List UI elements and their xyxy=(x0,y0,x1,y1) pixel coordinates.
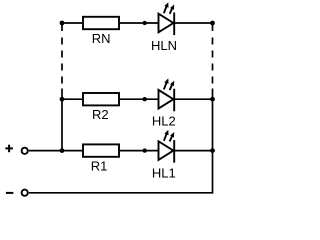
node left bus R1 / plus xyxy=(60,148,65,153)
wire branch 1 right xyxy=(174,150,213,152)
wire left bus dashed segment xyxy=(61,38,63,84)
wire branch 1 middle xyxy=(120,150,159,152)
wire right bus solid lower xyxy=(212,99,214,151)
wire left bus solid below top node xyxy=(61,23,63,31)
svg-text:HL2: HL2 xyxy=(152,114,176,129)
plus terminal symbol xyxy=(5,145,12,153)
minus terminal circle xyxy=(22,190,28,196)
LED HL2 xyxy=(159,83,175,112)
wire plus to left bus xyxy=(29,150,62,152)
wire right bus dashed segment xyxy=(212,38,214,84)
svg-text:R1: R1 xyxy=(91,158,108,173)
resistor RN xyxy=(83,17,119,29)
wire left bus solid segment xyxy=(61,99,63,150)
node right bus HL1 xyxy=(210,148,215,153)
node branch 1 mid xyxy=(143,148,147,152)
wire left bus solid above R2 node xyxy=(61,89,63,100)
node branch 2 mid xyxy=(143,97,147,101)
wire branch N middle xyxy=(120,22,159,24)
node right bus HL2 xyxy=(210,97,215,102)
wire branch N right xyxy=(174,22,213,24)
node branch N mid xyxy=(143,21,147,25)
svg-text:HLN: HLN xyxy=(151,38,177,53)
wire minus bottom rail xyxy=(29,151,213,193)
plus terminal circle xyxy=(22,148,28,154)
svg-text:R2: R2 xyxy=(92,107,109,122)
wire branch 2 left xyxy=(62,98,82,100)
wire right bus solid below top node xyxy=(212,23,214,31)
resistor R2 xyxy=(83,93,119,105)
node right bus top xyxy=(210,21,215,26)
wire branch 1 left (inside node to resistor) xyxy=(62,150,82,152)
wire right bus solid above HL2 node xyxy=(212,89,214,100)
svg-text:HL1: HL1 xyxy=(152,166,176,181)
minus terminal symbol xyxy=(6,192,13,194)
svg-text:RN: RN xyxy=(92,31,111,46)
node left bus R2 xyxy=(60,97,65,102)
wire branch 2 right xyxy=(174,98,213,100)
wire branch 2 middle xyxy=(120,98,159,100)
resistor R1 xyxy=(83,144,119,156)
LED HLN xyxy=(159,7,175,35)
node left bus top xyxy=(60,21,65,26)
LED HL1 xyxy=(159,134,175,163)
wire branch N left xyxy=(62,22,82,24)
